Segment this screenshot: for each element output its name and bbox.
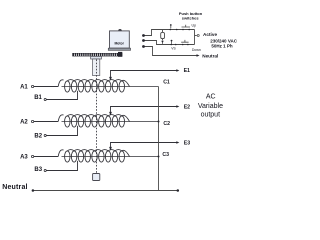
svg-text:B2: B2 bbox=[34, 134, 42, 140]
svg-text:output: output bbox=[201, 112, 221, 119]
svg-text:C2: C2 bbox=[163, 121, 170, 127]
svg-text:C1: C1 bbox=[163, 79, 170, 85]
svg-text:B3: B3 bbox=[34, 167, 42, 173]
svg-text:Neutral: Neutral bbox=[2, 184, 28, 191]
svg-text:A2: A2 bbox=[20, 119, 28, 125]
svg-text:230/240 VAC: 230/240 VAC bbox=[210, 38, 237, 43]
svg-text:C3: C3 bbox=[162, 152, 169, 158]
svg-text:Variable: Variable bbox=[198, 103, 223, 110]
svg-text:Up: Up bbox=[192, 24, 197, 28]
svg-text:VS: VS bbox=[171, 47, 176, 51]
svg-text:A3: A3 bbox=[20, 154, 28, 160]
svg-text:B1: B1 bbox=[34, 95, 42, 101]
svg-text:Neutral: Neutral bbox=[202, 53, 218, 58]
svg-text:E3: E3 bbox=[184, 141, 190, 147]
svg-text:AC: AC bbox=[206, 94, 216, 101]
svg-text:E2: E2 bbox=[184, 104, 190, 110]
svg-text:Active: Active bbox=[203, 32, 217, 37]
svg-text:A1: A1 bbox=[20, 84, 28, 90]
svg-text:Down: Down bbox=[192, 48, 201, 52]
svg-text:E1: E1 bbox=[184, 68, 190, 74]
svg-text:Motor: Motor bbox=[114, 41, 124, 45]
svg-text:50Hz 1 Ph: 50Hz 1 Ph bbox=[211, 44, 233, 49]
svg-text:switches: switches bbox=[182, 15, 200, 20]
